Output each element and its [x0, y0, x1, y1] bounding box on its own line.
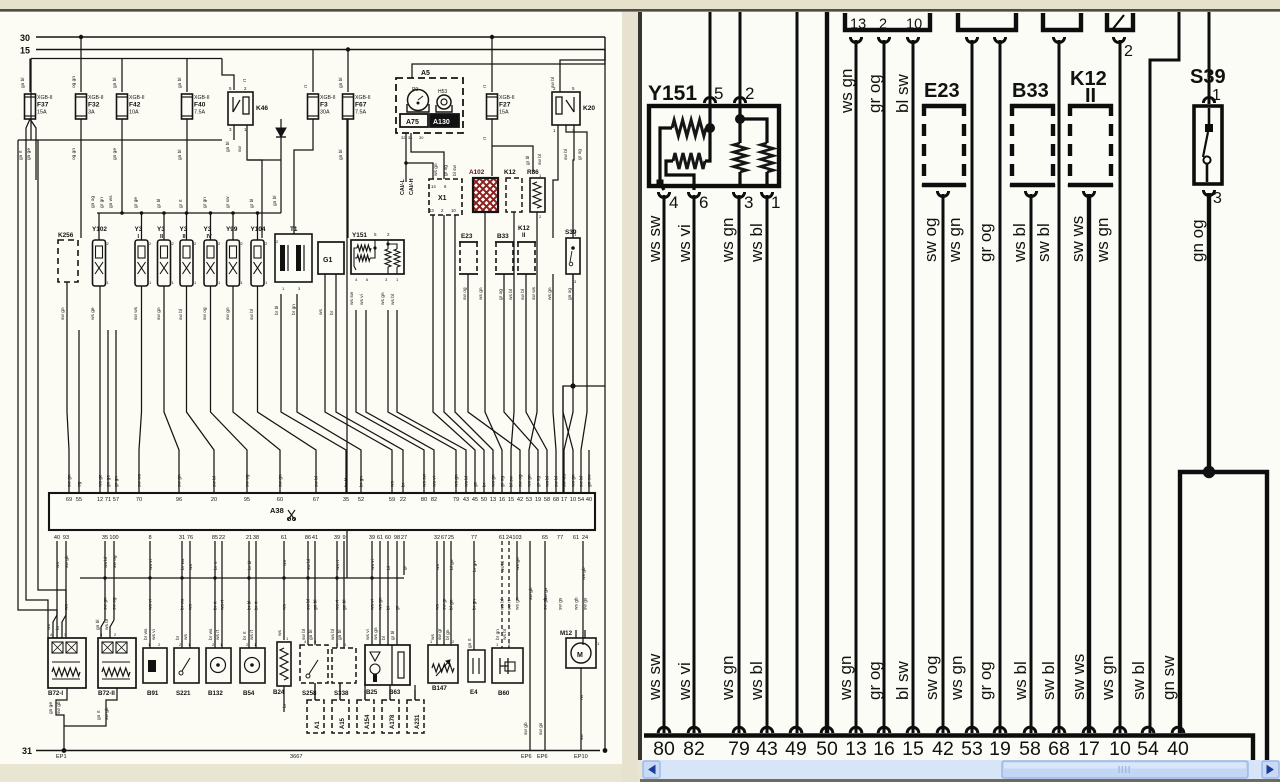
svg-text:ws bl: ws bl [464, 476, 470, 487]
control unit A5 dashed box [396, 78, 463, 133]
wire pin 43 [766, 195, 769, 733]
actuator A1 dashed [307, 700, 324, 733]
svg-text:ws bl: ws bl [508, 289, 514, 300]
svg-text:br bl: br bl [247, 561, 253, 570]
svg-text:XGB-II: XGB-II [320, 95, 336, 101]
S39 pin cup 3 [1203, 190, 1214, 196]
wire to A38 pin 71 [107, 330, 109, 493]
svg-text:13: 13 [850, 17, 866, 33]
svg-text:B72-I: B72-I [48, 690, 63, 697]
svg-text:ws gn: ws gn [516, 597, 521, 610]
bus pin cup 58 [1024, 727, 1036, 733]
label plate A130 [430, 114, 459, 127]
svg-text:3667: 3667 [290, 754, 302, 760]
svg-text:br: br [175, 635, 181, 640]
svg-text:50: 50 [816, 738, 838, 760]
svg-text:20: 20 [211, 497, 217, 503]
svg-text:sw gs: sw gs [559, 597, 564, 610]
svg-text:53: 53 [961, 738, 983, 760]
wire pin 68 [1058, 40, 1061, 733]
svg-text:K256: K256 [58, 232, 74, 239]
svg-text:2: 2 [1124, 43, 1133, 60]
svg-text:H53: H53 [438, 89, 447, 95]
junction node dot [1203, 466, 1215, 478]
wire to A38 pin 42 [468, 340, 520, 493]
svg-text:gn bl: gn bl [338, 78, 344, 88]
fuse F37 [25, 94, 36, 119]
ECU A38 box [49, 493, 595, 530]
dashed wires to B60 [501, 541, 503, 648]
svg-text:15: 15 [508, 497, 514, 503]
svg-text:gn sw: gn sw [588, 474, 593, 487]
svg-text:bl gn: bl gn [449, 559, 455, 570]
wire B24 down [283, 686, 285, 712]
wire pin 50 full height thick [825, 12, 829, 733]
svg-text:sw gn: sw gn [178, 474, 183, 487]
svg-text:III: III [183, 234, 188, 240]
svg-text:58: 58 [1019, 738, 1041, 760]
svg-text:38: 38 [253, 535, 259, 541]
svg-text:85: 85 [212, 535, 218, 541]
svg-text:sw bl: sw bl [1129, 661, 1148, 700]
svg-text:A5: A5 [421, 70, 430, 77]
svg-text:39: 39 [334, 535, 340, 541]
scrollbar thumb [1002, 761, 1248, 778]
svg-text:14: 14 [431, 184, 436, 189]
svg-text:ws: ws [65, 604, 70, 610]
svg-text:K46: K46 [256, 105, 268, 112]
svg-text:59: 59 [389, 497, 395, 503]
svg-text:ge: ge [474, 481, 479, 487]
A38 bottom wires [56, 541, 58, 615]
svg-text:F3: F3 [320, 102, 328, 109]
sensor B132 [206, 648, 231, 683]
svg-text:br bl: br bl [344, 478, 350, 487]
actuator A15 dashed [332, 700, 349, 733]
wire pin 53 [971, 40, 974, 733]
bus pin cup 80 [658, 727, 670, 733]
svg-text:Y102: Y102 [92, 226, 107, 233]
wire Y102 top [98, 213, 100, 240]
svg-text:sw gb: sw gb [528, 587, 534, 600]
svg-text:br: br [329, 310, 335, 315]
svg-text:60: 60 [385, 535, 391, 541]
svg-text:ws vi: ws vi [432, 476, 438, 487]
svg-text:ws sw: ws sw [350, 291, 355, 305]
wire K12 down [513, 212, 515, 330]
svg-text:79: 79 [453, 497, 459, 503]
svg-text:sw ws: sw ws [138, 473, 143, 487]
svg-text:ws gn: ws gn [479, 287, 484, 300]
wire pin 82 [693, 195, 696, 733]
svg-text:17: 17 [1078, 738, 1100, 760]
svg-text:gn bl: gn bl [338, 150, 344, 160]
svg-text:br ws: br ws [208, 628, 214, 640]
svg-text:45: 45 [472, 497, 478, 503]
Y151 internal wiring right node [705, 104, 710, 161]
solenoid block Y151 mini [351, 240, 404, 274]
svg-text:sw og: sw og [921, 218, 940, 262]
wire to A38 pin 52 [297, 294, 361, 493]
svg-text:gn bl: gn bl [272, 196, 278, 206]
svg-text:21: 21 [246, 535, 252, 541]
svg-text:67: 67 [313, 497, 319, 503]
pin cup 13 [850, 37, 861, 43]
E23 pin cup [937, 191, 948, 197]
horizontal scrollbar right panel [640, 760, 1280, 782]
svg-text:gn bl: gn bl [177, 78, 183, 88]
svg-text:A154: A154 [365, 714, 371, 729]
wire to A38 pin 35 [281, 294, 346, 493]
Y151 pin cup 1 [761, 192, 772, 198]
wire pin 79 [738, 195, 741, 733]
svg-text:gn rt: gn rt [96, 710, 102, 720]
svg-text:br gn: br gn [359, 476, 365, 487]
svg-text:60: 60 [277, 497, 283, 503]
wire F67 up [347, 50, 349, 93]
pin cup 53 [966, 37, 977, 43]
relay K20 [552, 92, 580, 125]
svg-text:ws: ws [431, 634, 436, 640]
svg-text:gr og: gr og [443, 165, 449, 176]
svg-text:sw og: sw og [203, 307, 208, 320]
bus pin cup 17 [1083, 727, 1095, 733]
svg-text:XGB-II: XGB-II [499, 95, 515, 101]
svg-text:br gn: br gn [291, 304, 297, 315]
wire pin 42 [942, 194, 945, 733]
svg-text:gn bl: gn bl [177, 150, 183, 160]
actuator feeds horizontal [315, 689, 415, 691]
svg-text:24: 24 [582, 535, 588, 541]
wire to A38 pin 60 [233, 286, 280, 493]
svg-text:80: 80 [421, 497, 427, 503]
wire pin 58 [1030, 194, 1033, 733]
svg-text:og: og [78, 481, 83, 487]
resistor B24 [277, 642, 291, 686]
svg-text:F27: F27 [499, 102, 511, 109]
svg-text:ws bl: ws bl [747, 661, 766, 701]
svg-text:61: 61 [281, 535, 287, 541]
svg-text:22: 22 [400, 497, 406, 503]
svg-text:67: 67 [441, 535, 447, 541]
svg-text:gr ge: gr ge [133, 197, 139, 208]
svg-text:ws: ws [319, 309, 324, 315]
svg-text:A102: A102 [469, 169, 485, 176]
wire to A38 pin 50 [444, 215, 484, 493]
svg-text:1: 1 [771, 193, 780, 212]
svg-text:15: 15 [20, 46, 30, 56]
fuse F40 [182, 94, 193, 119]
pump P9 [408, 90, 429, 111]
wire to A38 pin 22 [336, 330, 403, 493]
svg-text:77: 77 [557, 535, 563, 541]
svg-text:Y3: Y3 [157, 226, 165, 233]
svg-text:gr gn: gr gn [114, 476, 120, 487]
status bar edge [640, 779, 1280, 782]
svg-text:39: 39 [369, 535, 375, 541]
svg-text:35: 35 [343, 497, 349, 503]
svg-text:S338: S338 [334, 690, 349, 697]
svg-text:B63: B63 [389, 689, 401, 696]
wire K20 up [560, 37, 605, 92]
svg-text:B60: B60 [498, 690, 510, 697]
svg-text:sw bl: sw bl [1034, 223, 1053, 262]
svg-text:bl sw: bl sw [893, 74, 912, 113]
node on rail 30 [79, 35, 83, 39]
svg-text:50: 50 [481, 497, 487, 503]
svg-text:sw gb: sw gb [56, 701, 62, 714]
svg-text:gr og: gr og [577, 149, 583, 160]
svg-text:sw bl: sw bl [314, 476, 320, 487]
svg-text:Y3: Y3 [180, 226, 188, 233]
svg-text:sw ws: sw ws [563, 473, 568, 487]
svg-text:2: 2 [879, 17, 887, 33]
svg-text:ws: ws [283, 604, 288, 610]
svg-text:Y151: Y151 [648, 82, 697, 105]
svg-text:76: 76 [187, 535, 193, 541]
svg-text:K12: K12 [504, 169, 516, 176]
svg-text:10: 10 [1109, 738, 1131, 760]
bus pin cup 13 [850, 727, 862, 733]
wire to A38 pin 70 [139, 286, 142, 493]
svg-text:103: 103 [512, 535, 521, 541]
svg-text:B33: B33 [1012, 80, 1049, 102]
wire Y151 pin 5 from top [709, 12, 712, 104]
svg-text:ws rt: ws rt [335, 559, 341, 570]
svg-text:br gn: br gn [495, 629, 501, 640]
svg-text:sw bl: sw bl [579, 476, 585, 487]
K20 drops [553, 125, 558, 238]
injector valve Y3IV [204, 240, 217, 286]
svg-text:sw gb: sw gb [64, 555, 70, 568]
Y151 resistor R4 vertical [761, 143, 774, 172]
wire S39 mini to junction [572, 274, 574, 386]
svg-text:ws gn: ws gn [947, 656, 966, 701]
wire to A38 pin 16 [485, 330, 502, 493]
G1 wires down [324, 274, 326, 330]
sensor B72-II [98, 638, 136, 688]
svg-text:sw bl: sw bl [550, 77, 556, 88]
potentiometer B147 [428, 645, 458, 683]
svg-text:58: 58 [544, 497, 550, 503]
links from S258 S338 B25 to actuators [314, 683, 316, 690]
svg-text:25: 25 [448, 535, 454, 541]
S39 pin cup 1 [1203, 97, 1214, 103]
svg-text:ws bl: ws bl [330, 629, 336, 640]
wire to A38 pin 17 [564, 274, 573, 493]
svg-text:br: br [282, 703, 288, 708]
svg-text:ws sw: ws sw [645, 215, 664, 263]
svg-text:gr og: gr og [536, 476, 542, 487]
svg-text:13: 13 [429, 208, 434, 213]
svg-text:gn rt: gn rt [467, 638, 473, 648]
resistor R86 [530, 178, 545, 212]
switch S258 dashed [300, 645, 328, 683]
svg-text:57: 57 [113, 497, 119, 503]
Y151 internal wiring left [660, 128, 672, 190]
svg-text:ws ge: ws ge [99, 474, 104, 487]
diode wire to rail junction [248, 159, 281, 161]
sensor block B25 B63 [365, 645, 410, 685]
svg-text:Y3: Y3 [135, 226, 143, 233]
wire F37 up [29, 59, 31, 93]
fuse F32 [76, 94, 87, 119]
svg-text:ws bl: ws bl [1011, 661, 1030, 701]
svg-text:sw gb: sw gb [523, 722, 529, 735]
svg-text:K20: K20 [583, 105, 595, 112]
feed rail 3 [31, 58, 222, 60]
svg-text:gn ge: gn ge [113, 148, 118, 160]
svg-text:ws: ws [184, 634, 189, 640]
wire to A38 pin 40 [588, 450, 590, 493]
svg-text:gr og: gr og [865, 661, 884, 700]
svg-text:6: 6 [699, 193, 708, 212]
svg-text:15: 15 [902, 738, 924, 760]
svg-text:gn og: gn og [91, 196, 96, 208]
actuator A231 dashed [407, 700, 424, 733]
wire pin 16 [883, 40, 886, 733]
svg-text:ws: ws [278, 630, 283, 636]
svg-text:16: 16 [499, 497, 505, 503]
Y151 pin cup 6 [688, 192, 699, 198]
svg-text:F67: F67 [355, 102, 367, 109]
svg-text:ws rt: ws rt [249, 629, 255, 640]
svg-text:sw gn: sw gn [279, 474, 284, 487]
Y151 pin cup 2 [734, 97, 745, 103]
svg-text:9: 9 [342, 535, 345, 541]
svg-text:42: 42 [517, 497, 523, 503]
wire to A38 pin 19 [504, 340, 538, 493]
wire pin 54 stepped from top [1150, 12, 1179, 733]
svg-text:Y99: Y99 [226, 226, 238, 233]
svg-text:27: 27 [401, 535, 407, 541]
svg-text:B132: B132 [208, 690, 223, 697]
wire to A38 pin 80 [356, 310, 424, 493]
relay K12 mini dashed [506, 178, 522, 212]
injector valve Y102 [93, 240, 106, 286]
svg-text:B147: B147 [432, 685, 447, 692]
svg-text:ws gn: ws gn [1098, 656, 1117, 701]
generator G1 [318, 242, 344, 274]
wire to A38 pin 12 [99, 286, 101, 493]
svg-text:sw gs: sw gs [584, 597, 589, 610]
svg-text:br: br [401, 482, 407, 487]
switch S221 [174, 648, 199, 683]
panel divider [622, 12, 638, 782]
svg-text:30: 30 [20, 33, 30, 43]
svg-text:bl sw: bl sw [509, 476, 515, 487]
svg-text:sw gr: sw gr [437, 628, 443, 640]
label plate A75 [400, 114, 428, 127]
svg-text:gr bl: gr bl [249, 199, 255, 208]
pin cup 68 [1053, 37, 1064, 43]
svg-text:ws: ws [47, 624, 52, 630]
svg-text:gr bl: gr bl [525, 156, 531, 165]
right panel border [638, 12, 642, 760]
svg-text:B24: B24 [273, 689, 285, 696]
injector supply rail [97, 212, 281, 214]
svg-text:ws: ws [391, 481, 396, 487]
svg-text:og gn: og gn [72, 148, 77, 160]
svg-text:sw og: sw og [113, 597, 118, 610]
svg-text:sw ws: sw ws [1069, 654, 1088, 700]
sensor B60 [492, 648, 523, 683]
svg-text:CAI/-H: CAI/-H [409, 178, 415, 195]
svg-text:A231: A231 [415, 714, 421, 729]
svg-text:22: 22 [219, 535, 225, 541]
svg-text:M12: M12 [560, 630, 573, 637]
svg-text:sw bl: sw bl [306, 559, 312, 570]
svg-text:30A: 30A [320, 110, 330, 116]
svg-text:77: 77 [471, 535, 477, 541]
svg-text:17: 17 [561, 497, 567, 503]
svg-text:4: 4 [669, 193, 678, 212]
svg-text:ws sw: ws sw [423, 473, 428, 487]
svg-text:gn ge: gn ge [49, 702, 54, 714]
motor M12 [566, 638, 596, 668]
svg-text:ws bl: ws bl [500, 561, 506, 572]
bus pin cup 15 [907, 727, 919, 733]
svg-text:ws gn: ws gn [381, 292, 386, 305]
bus pin cup 54 [1142, 727, 1154, 733]
svg-text:70: 70 [136, 497, 142, 503]
K46 drop wires [233, 125, 235, 140]
svg-text:sw gs: sw gs [539, 722, 544, 735]
wire E23 down [467, 274, 469, 340]
svg-text:65: 65 [542, 535, 548, 541]
svg-text:A15: A15 [340, 717, 346, 729]
svg-text:61: 61 [377, 535, 383, 541]
pin cup 19 [994, 37, 1005, 43]
svg-text:sw gn: sw gn [157, 307, 162, 320]
svg-text:P9: P9 [412, 87, 418, 93]
wire to A38 pin 13 [455, 215, 493, 493]
svg-text:30: 30 [419, 135, 424, 140]
svg-text:R86: R86 [527, 169, 539, 176]
injector feed drops [141, 213, 143, 240]
svg-text:54: 54 [578, 497, 584, 503]
svg-text:53: 53 [526, 497, 532, 503]
wire to A38 pin 82 [366, 310, 434, 493]
svg-text:71: 71 [105, 497, 111, 503]
svg-text:40: 40 [1167, 738, 1189, 760]
injector valve Y3II [158, 240, 171, 286]
svg-text:bl: bl [381, 636, 387, 640]
wire to A38 pin 59 [325, 330, 392, 493]
svg-text:95: 95 [244, 497, 250, 503]
svg-text:gr og: gr og [976, 223, 995, 262]
svg-text:A38: A38 [270, 506, 284, 515]
svg-text:gr bl: gr bl [156, 199, 162, 208]
svg-text:gr sw: gr sw [225, 196, 231, 208]
bus pin cup 42 [937, 727, 949, 733]
svg-text:ws bl: ws bl [502, 629, 508, 640]
svg-text:IV: IV [207, 234, 213, 240]
bus pin cup 50 [821, 727, 833, 733]
svg-text:79: 79 [728, 738, 750, 760]
svg-text:X1: X1 [438, 195, 447, 202]
bus pin cup 79 [733, 727, 745, 733]
bus bar ground rail right panel [644, 736, 1253, 761]
svg-text:80: 80 [653, 738, 675, 760]
svg-text:G1: G1 [323, 257, 332, 264]
wire to A38 pin 67 [258, 286, 317, 493]
svg-text:EP6: EP6 [537, 754, 548, 760]
svg-text:F32: F32 [88, 102, 100, 109]
svg-text:K12: K12 [518, 225, 530, 232]
svg-text:gr og: gr og [865, 74, 884, 113]
svg-text:XGB-II: XGB-II [37, 95, 53, 101]
